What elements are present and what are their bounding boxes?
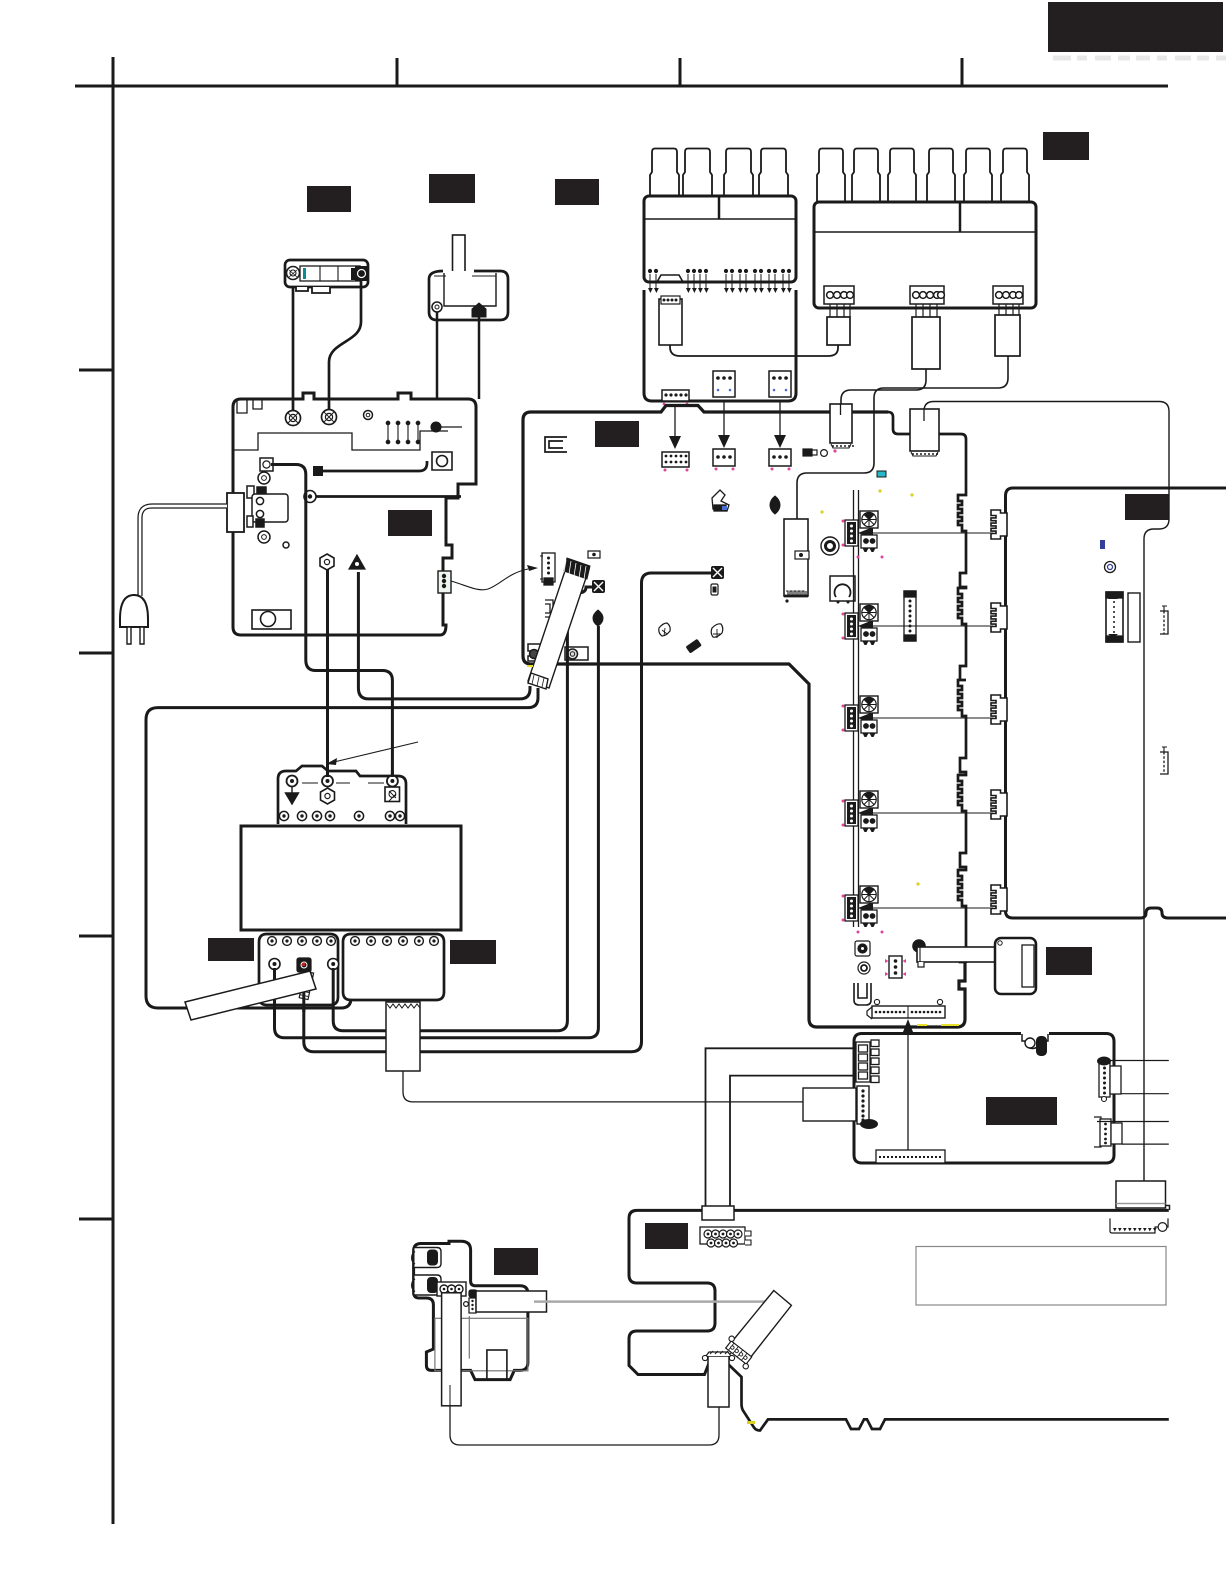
PSU screws top <box>286 410 373 426</box>
PSU bottom screws <box>320 554 365 570</box>
speaker terminal block left <box>644 149 796 402</box>
amp board comb connector 1 <box>991 510 1007 539</box>
white plug B on main board top edge <box>910 409 939 456</box>
arrows down to main board plugs <box>669 401 786 449</box>
bottom board (front panel) outline <box>629 1210 1169 1430</box>
arrow from control board up to pin strip <box>903 1019 913 1153</box>
small parts near plugs <box>803 449 886 477</box>
tall white plug on bottom-left board <box>442 1293 462 1406</box>
thin arrow PSU connector to 5pin <box>451 565 538 590</box>
bottom-left small board <box>414 1241 528 1379</box>
lower body left block <box>644 290 796 401</box>
clothespin symbol <box>712 490 729 511</box>
amp board inner vertical + components <box>1100 540 1140 642</box>
C bracket on main board <box>545 437 567 452</box>
annotation arrow at top terminal board <box>326 742 418 765</box>
amp board comb connector 3 <box>991 695 1007 724</box>
small oriented parts <box>588 551 600 558</box>
faint ghost text row under title block <box>1053 56 1226 61</box>
bus bar vertical <box>854 490 859 927</box>
terminal board bottom screws <box>279 811 404 820</box>
PSU right bracket w/ circle <box>432 452 452 470</box>
bus cluster row 5: fan pad, 4-pin connector, arrow, link wire to amp comb <box>845 886 993 927</box>
amp board comb connector 4 <box>991 790 1007 819</box>
AC inlet + cord + plug <box>120 493 244 644</box>
main board outline <box>523 406 966 1028</box>
ribbon cable control board to bottom board <box>706 1048 856 1209</box>
diamond component 2 <box>593 610 603 626</box>
white plug A on main board top edge <box>830 404 854 453</box>
control board left connectors <box>856 1040 879 1083</box>
thin wire from tall plug to bottom center plug <box>450 1396 719 1445</box>
mid-right small board <box>995 938 1036 994</box>
below bus: black screw + pad <box>855 941 870 974</box>
wire stubs over boards <box>275 770 393 1012</box>
PSU board outline <box>233 393 476 635</box>
display window rect <box>916 1247 1166 1306</box>
headphone cable white rect + gray wire <box>476 1291 547 1312</box>
wire: PSU hex screw to transformer terminal 2 <box>326 569 329 776</box>
jack notches + black jacks <box>412 1248 441 1296</box>
lower terminal board left <box>259 934 339 1005</box>
teeth left block <box>650 149 679 197</box>
small board top-left (power trans relay board) <box>285 260 368 293</box>
dotted connector bottom right <box>1110 1218 1168 1233</box>
label boxes (redacted board names) <box>208 2 1223 1275</box>
wires from small board into PSU <box>292 287 295 416</box>
bus clusters + arrows to amp combs <box>845 511 993 927</box>
bus cluster row 3: fan pad, 4-pin connector, arrow, link wire to amp comb <box>845 696 993 737</box>
bus cluster row 2: fan pad, 4-pin connector, arrow, link wire to amp comb <box>845 604 993 645</box>
PSU internal wires <box>316 461 461 497</box>
diagonal lamp component <box>720 1291 792 1371</box>
amp board comb connector 5 <box>991 885 1007 914</box>
PSU-to-transformer wires <box>271 465 530 777</box>
diagonal ruler strip <box>185 971 316 1020</box>
power switch assembly <box>429 235 508 320</box>
colored dots on clusters <box>842 520 884 934</box>
diamond component <box>770 496 780 514</box>
long pin strip connector <box>867 999 945 1019</box>
wire: PSU triangle screw to FL tube tip <box>358 572 530 699</box>
16 pin connector mid board <box>904 591 916 641</box>
power transformer <box>241 826 461 930</box>
amp board comb connector 2 <box>991 603 1007 632</box>
bottom center plug <box>702 1351 734 1407</box>
FL display diagonal component <box>528 558 590 689</box>
small parts right of connector <box>464 1290 477 1313</box>
2x5 connector on bottom board <box>700 1206 751 1247</box>
3pin connector w/ pink arrows <box>885 956 906 978</box>
PSU bottom oval bracket <box>252 610 291 629</box>
left block tall connector <box>659 296 682 345</box>
right block bottom connector groups <box>824 286 1023 304</box>
wire A: term screw to diamond2 <box>275 626 599 1038</box>
ribbon cable from right terminal board <box>386 1002 420 1071</box>
PSU edge connector (to FL arrow) <box>438 571 451 593</box>
mount brackets w/ screws under FL <box>528 644 588 661</box>
amp board right brackets <box>1160 606 1168 774</box>
double circle pad <box>821 537 839 555</box>
wires from switch into PSU <box>436 312 439 399</box>
right block plugs <box>827 315 1020 369</box>
lower terminal board right <box>343 934 444 1000</box>
wire B: black screw to X2 <box>304 573 711 1052</box>
amp board outline <box>1006 488 1226 918</box>
tall relay rect <box>784 519 808 603</box>
PSU pin pairs <box>386 421 462 444</box>
bus cluster row 1: fan pad, 4-pin connector, arrow, link wire to amp comb <box>845 511 993 552</box>
transformer top terminal board <box>278 766 406 824</box>
control board <box>854 1034 1114 1164</box>
3 circle connector <box>437 1282 466 1299</box>
wire plugB right run to amp area <box>924 402 1169 1191</box>
white box above bottom board right <box>1116 1181 1170 1210</box>
5-pin connector target of PSU arrow <box>540 553 555 585</box>
small yellow tick <box>747 1421 755 1424</box>
control board bottom connector <box>876 1150 945 1163</box>
control board right connectors + wires <box>1094 1057 1122 1148</box>
big loop wire: FL tip to right terminal board <box>146 688 538 1008</box>
mating plugs on main board (from left speaker block) <box>662 449 791 472</box>
crimp hatched <box>299 971 313 999</box>
bus cluster row 4: fan pad, 4-pin connector, arrow, link wire to amp comb <box>845 791 993 832</box>
thin wire ribbon to control board cable <box>403 1071 803 1102</box>
X component 1 <box>592 580 605 593</box>
pin row + down arrows left block <box>648 269 792 293</box>
left block bottom connectors <box>662 371 791 405</box>
small bracket right of FL <box>545 600 553 617</box>
upper body left block <box>644 196 796 282</box>
wire plug3 to tall rect <box>797 356 1008 519</box>
wire: left tall connector to right plug1 <box>670 345 838 356</box>
speaker terminal block right <box>814 149 1036 309</box>
yellow marks <box>527 666 959 1025</box>
X component 2 <box>711 566 724 579</box>
main board bottom: U bracket <box>854 983 871 1005</box>
PSU left components <box>247 472 289 548</box>
wire C: term screw to X1 <box>333 587 592 1031</box>
heatsink end + slider pot <box>913 940 1010 967</box>
horn / headphone component <box>830 576 855 604</box>
hex cutout <box>657 275 683 282</box>
wire plug2 to plugA <box>841 369 926 412</box>
wire: PSU pad to transformer terminal 3 <box>271 465 392 777</box>
terminal entries <box>286 776 400 805</box>
extra small parts main board <box>686 551 809 653</box>
